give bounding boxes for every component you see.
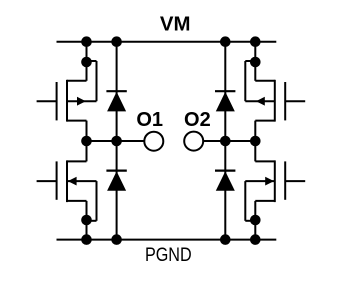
transistor Q3 (low-side FET, left) [37, 160, 97, 220]
svg-text:PGND: PGND [145, 244, 192, 266]
wire Q2 source to node O2 [254, 121, 256, 141]
junction PGND rail / D3 anode [111, 234, 122, 245]
node O1 diode junction [111, 136, 122, 147]
wire Q4 source to PGND rail [254, 201, 256, 240]
junction VM rail / Q1 drain [81, 36, 92, 47]
svg-text:VM: VM [160, 14, 191, 36]
svg-text:O1: O1 [136, 109, 163, 131]
diode D3 (lower left body diode) [106, 171, 126, 191]
transistor Q2 (high-side FET, right) [245, 61, 305, 122]
junction PGND rail / Q3 source [81, 234, 92, 245]
transistor Q4 (low-side FET, right) [245, 160, 305, 220]
diode D1 (upper left body diode) [106, 91, 126, 111]
wire node O2 horizontal run [225, 140, 255, 142]
wire node O1 to terminal O1 [117, 140, 145, 142]
wire Q2 drain to VM rail [254, 42, 256, 81]
junction Q4 source-body tie [250, 215, 261, 226]
node O1 half-bridge junction [81, 136, 92, 147]
wire node O1 horizontal run [87, 140, 117, 142]
junction VM rail / D2 cathode [220, 36, 231, 47]
diode D4 (lower right body diode) [215, 171, 235, 191]
diode D2 (upper right body diode) [215, 91, 235, 111]
terminal O1 circle [144, 132, 163, 151]
junction PGND rail / D4 anode [220, 234, 231, 245]
wire Q1 drain to VM rail [86, 42, 88, 81]
wire Q3 source to PGND rail [86, 201, 88, 240]
junction VM rail / D1 cathode [111, 36, 122, 47]
wire right diode branch vertical [224, 42, 226, 240]
junction Q2 drain-body tie [250, 57, 261, 68]
junction Q1 drain-body tie [81, 57, 92, 68]
wire PGND ground rail [57, 239, 277, 241]
wire terminal O2 to node O2 [203, 140, 225, 142]
terminal O2 circle [184, 132, 203, 151]
wire left diode branch vertical [116, 42, 118, 240]
junction VM rail / Q2 drain [250, 36, 261, 47]
node O2 half-bridge junction [250, 136, 261, 147]
junction Q3 source-body tie [81, 215, 92, 226]
wire Q1 source to node O1 [86, 121, 88, 141]
svg-text:O2: O2 [184, 109, 211, 131]
wire VM power rail [57, 41, 277, 43]
wire node O2 to Q4 drain [254, 141, 256, 161]
junction PGND rail / Q4 source [250, 234, 261, 245]
transistor Q1 (high-side FET, left) [37, 61, 97, 122]
wire node O1 to Q3 drain [86, 141, 88, 161]
node O2 diode junction [220, 136, 231, 147]
